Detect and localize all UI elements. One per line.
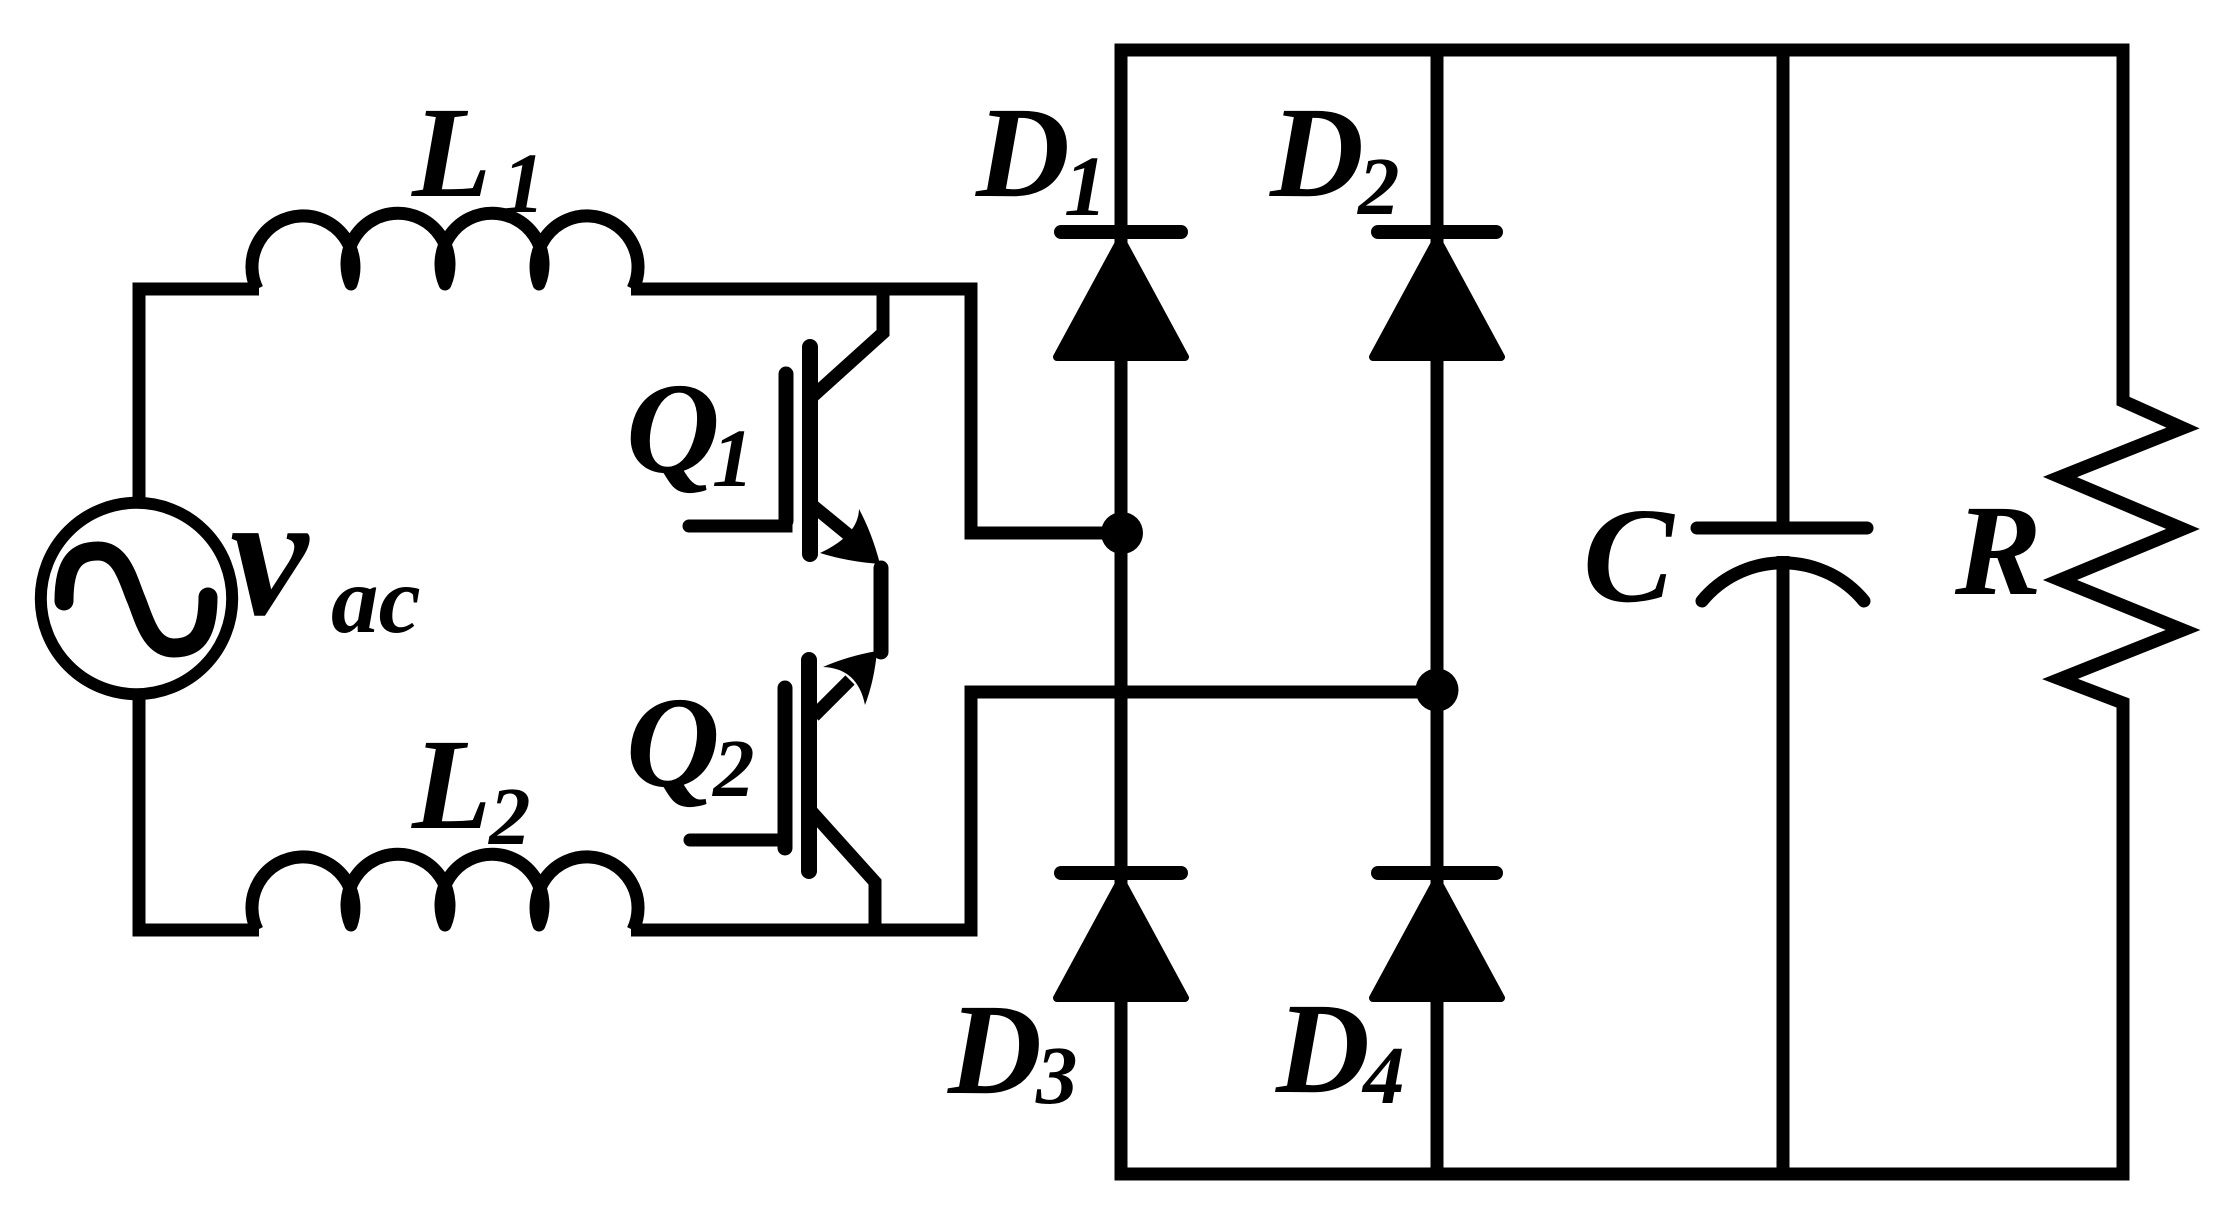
svg-text:D: D [1269, 81, 1364, 225]
svg-text:1: 1 [712, 412, 754, 504]
svg-text:L: L [411, 81, 491, 225]
inductor L2 [252, 854, 638, 930]
wire capacitor top lead [1777, 44, 1790, 522]
svg-text:D: D [947, 978, 1042, 1122]
svg-text:Q: Q [626, 357, 720, 501]
diode D2 cathode bar [1378, 225, 1496, 239]
transistor Q1 gate lead [689, 516, 786, 526]
wire L1 to bridge [631, 289, 1122, 533]
transistor Q1 emitter [812, 505, 856, 541]
wire source top lead [139, 289, 259, 503]
svg-text:D: D [975, 81, 1070, 225]
diode D3 cathode bar [1061, 866, 1181, 880]
svg-text:v: v [230, 458, 310, 653]
svg-text:2: 2 [711, 722, 755, 814]
diode D1 triangle [1057, 239, 1185, 357]
svg-text:4: 4 [1361, 1029, 1405, 1121]
transistor Q2 main bar [801, 660, 817, 871]
svg-text:L: L [411, 713, 491, 857]
voltage source Vac [41, 503, 232, 694]
wire L2 to bridge [631, 692, 1437, 930]
wire top rail [1115, 44, 2130, 57]
svg-text:1: 1 [1064, 138, 1107, 234]
svg-text:ac: ac [331, 547, 421, 653]
transistor Q1 collector [812, 283, 883, 397]
transistor Q2 gate lead [690, 830, 785, 840]
node L1-D1D3 junction [1101, 512, 1143, 554]
wire D2-D4 branch [1431, 44, 1444, 1174]
svg-text:R: R [1954, 479, 2042, 623]
svg-text:3: 3 [1035, 1029, 1078, 1121]
wire capacitor bottom lead [1777, 556, 1790, 1174]
transistor Q2 emitter arrow [823, 651, 877, 705]
diode D2 triangle [1373, 239, 1501, 357]
wire bottom rail [1115, 1168, 2130, 1181]
svg-text:2: 2 [1356, 140, 1400, 232]
transistor Q2 emitter [814, 680, 850, 716]
diode D4 triangle [1373, 880, 1501, 998]
diode D1 cathode bar [1061, 225, 1181, 239]
transistor Q1 emitter arrow [820, 509, 880, 564]
svg-text:2: 2 [487, 770, 531, 862]
node L2-D2D4 junction [1416, 669, 1459, 712]
transistor Q1 gate bar [779, 374, 794, 521]
capacitor C top plate [1697, 522, 1867, 535]
sine wave inside source [64, 551, 208, 648]
wire D1-D3 branch [1115, 44, 1128, 1174]
svg-text:1: 1 [502, 135, 545, 231]
wire source bottom lead [139, 694, 259, 930]
emitter node segment [874, 568, 889, 652]
diode D4 cathode bar [1378, 866, 1496, 880]
transistor Q1 main bar [802, 347, 818, 554]
svg-text:Q: Q [626, 671, 720, 815]
capacitor C bottom plate [1702, 563, 1864, 601]
svg-text:C: C [1583, 481, 1675, 631]
transistor Q2 collector [812, 812, 875, 936]
svg-text:D: D [1275, 977, 1370, 1121]
inductor L1 [252, 213, 638, 289]
transistor Q2 gate bar [778, 688, 793, 848]
resistor R with leads [2060, 44, 2183, 1174]
diode D3 triangle [1057, 880, 1185, 998]
